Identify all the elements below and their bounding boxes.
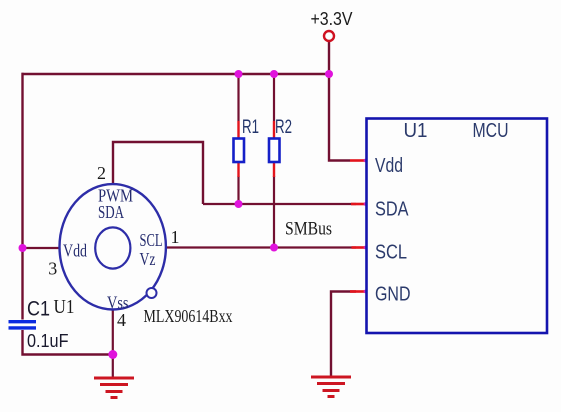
pin stub: R2 upper pin [273,121,275,139]
svg-text:Vz: Vz [140,249,156,269]
junction on top rail at R1 [235,70,243,78]
pin stub: R1 lower pin [237,162,239,178]
resistor R1 body [234,139,245,163]
wire: R1 top [237,74,239,121]
svg-text:3: 3 [48,259,57,279]
svg-text:MLX90614Bxx: MLX90614Bxx [144,306,233,326]
wire: SCL net from sensor pin 1 to MCU [166,246,356,248]
capacitor C1 plates [9,322,37,328]
junction left rail at sensor Vdd [19,244,27,252]
power terminal: +3.3V open circle [324,31,334,41]
svg-text:SDA: SDA [98,202,124,222]
wire: below C1 down and right to ground junction [23,330,114,355]
svg-text:+3.3V: +3.3V [311,9,353,29]
sensor inner circle [95,227,130,268]
wire: sensor PWM/SDA pin (pin 2) up, over and down to SDA net [113,142,203,204]
wire: SDA net to MCU [203,203,356,205]
pin stub: R1 upper pin [237,121,239,139]
sensor U1 outer body (MLX90614) [59,184,165,309]
svg-text:4: 4 [117,310,126,330]
ground symbol at MCU GND [311,377,351,397]
junction on top rail at +3.3V drop [325,70,333,78]
svg-text:0.1uF: 0.1uF [27,331,69,351]
wire: +3.3V drop to MCU Vdd [329,42,350,161]
junction on top rail at R2 [270,70,278,78]
svg-text:SMBus: SMBus [285,219,332,240]
svg-text:U1: U1 [54,296,75,318]
wire: sensor Vss pin (pin 4) down to ground junction [112,308,114,377]
svg-text:R2: R2 [275,117,292,138]
junction R2 to SCL net [270,244,278,252]
junction R1 to SDA net [235,200,243,208]
ground symbol at sensor Vss [94,378,134,398]
wire: R1 bottom [237,176,239,204]
pin stub: MCU SCL pin [352,246,367,249]
wire: R2 top [273,74,275,121]
svg-text:MCU: MCU [473,120,509,142]
pin connection mark: MCU SDA [364,202,367,205]
wire: R2 bottom to SCL net [273,176,275,248]
pin connection mark: MCU GND [364,290,367,293]
pin stub: R2 lower pin [273,162,275,178]
junction Vss to ground [108,350,117,359]
svg-text:SCL: SCL [140,230,163,250]
sensor pin-1 indicator circle [147,288,157,298]
pin connection mark: MCU SCL [364,246,367,249]
resistor R2 body [269,139,280,163]
svg-text:2: 2 [97,163,106,183]
svg-text:GND: GND [375,284,411,306]
svg-text:R1: R1 [242,117,259,138]
pin stub: MCU GND pin [350,290,366,293]
wire: MCU GND pin to ground [331,292,356,378]
svg-text:Vdd: Vdd [63,241,87,261]
svg-text:1: 1 [171,227,180,247]
wire: sensor Vdd pin (pin 3) to left rail [23,247,61,249]
svg-text:C1: C1 [27,298,50,321]
wire: +3.3V top rail [22,73,330,75]
svg-text:SCL: SCL [375,241,407,263]
pin stub: MCU Vdd pin [350,159,366,162]
svg-text:U1: U1 [404,120,428,142]
pin stub: MCU SDA pin [351,203,366,206]
svg-text:SDA: SDA [375,199,409,221]
wire: left vertical rail [21,73,23,320]
svg-text:Vdd: Vdd [375,155,403,177]
MCU block U1 [367,119,548,334]
pin connection mark: MCU Vdd [364,159,367,162]
